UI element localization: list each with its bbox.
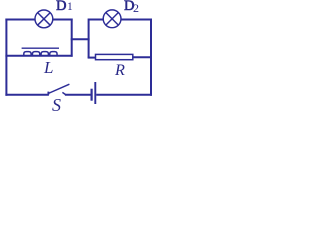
- label R: [115, 61, 125, 80]
- switch S pivot contact: [47, 92, 49, 95]
- wire: node B to lamp D2: [89, 19, 104, 21]
- switch S blade: [48, 84, 69, 93]
- wire: resistor R to right vertical: [133, 56, 152, 58]
- label D1: [56, 0, 66, 15]
- label D2: [124, 0, 134, 15]
- switch S right contact: [62, 92, 65, 94]
- resistor R body: [96, 54, 133, 59]
- wire: stub to resistor R: [88, 57, 96, 59]
- wire: mid-left vertical (node A down to inductor): [71, 19, 73, 57]
- label L: [44, 58, 53, 78]
- lamp D1: [35, 10, 53, 28]
- wire: mid-right vertical (node B down to resistor): [88, 19, 90, 58]
- wire: right vertical: [150, 19, 152, 96]
- wire: left vertical: [5, 19, 7, 96]
- inductor L coil (4 bumps): [24, 52, 57, 57]
- inductor L core bar: [22, 47, 59, 49]
- battery negative plate (short): [90, 89, 92, 101]
- lamp D2: [103, 10, 121, 28]
- wire: crossbar link between branches: [71, 38, 90, 40]
- wire: battery to bottom-right corner: [96, 94, 152, 96]
- battery positive plate (long): [94, 82, 96, 104]
- wire: lamp D2 to top-right corner: [121, 19, 152, 21]
- wire: lamp D1 to mid vertical: [53, 19, 73, 21]
- wire: switch to battery: [65, 94, 91, 96]
- wire: inductor baseline: [5, 55, 72, 57]
- wire: bottom-left to switch: [5, 94, 49, 96]
- wire: top-left to lamp D1: [5, 19, 35, 21]
- label S: [52, 95, 61, 116]
